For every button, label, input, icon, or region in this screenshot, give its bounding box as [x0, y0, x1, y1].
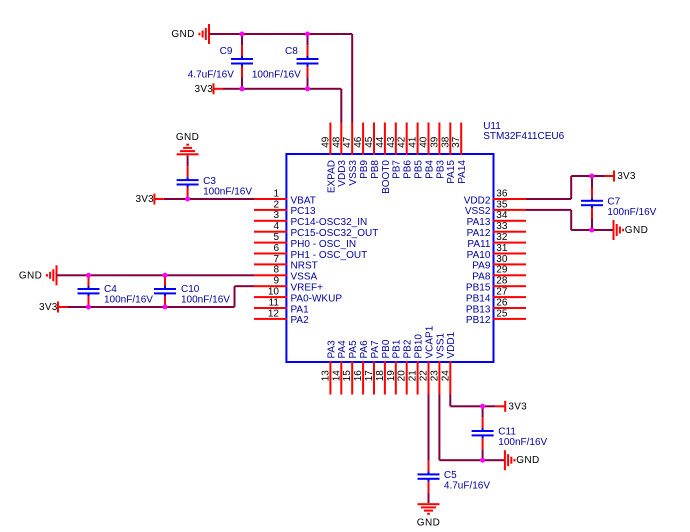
pin 29 PA8	[472, 265, 526, 283]
svg-text:PC13: PC13	[291, 206, 316, 217]
svg-text:34: 34	[496, 210, 508, 221]
pin 43 PB7	[386, 123, 403, 179]
pin 15 PA5	[342, 340, 359, 395]
svg-text:17: 17	[364, 370, 375, 382]
svg-text:STM32F411CEU6: STM32F411CEU6	[483, 131, 564, 142]
svg-text:100nF/16V: 100nF/16V	[181, 294, 230, 305]
svg-text:PA6: PA6	[359, 340, 370, 359]
svg-text:49: 49	[320, 136, 331, 148]
wire GND to C3	[187, 155, 189, 166]
pin 7 NRST	[254, 254, 318, 272]
svg-text:21: 21	[408, 370, 419, 382]
svg-text:PC15-OSC32_OUT: PC15-OSC32_OUT	[291, 228, 379, 239]
svg-text:PC14-OSC32_IN: PC14-OSC32_IN	[291, 217, 368, 228]
svg-text:31: 31	[496, 243, 508, 254]
svg-text:PB10: PB10	[414, 334, 425, 359]
svg-text:25: 25	[496, 308, 508, 319]
svg-text:39: 39	[429, 136, 440, 148]
svg-text:VREF+: VREF+	[291, 283, 324, 294]
svg-text:3V3: 3V3	[617, 171, 636, 182]
pin 9 VREF+	[254, 276, 323, 294]
svg-text:27: 27	[496, 287, 508, 298]
pin 6 PH1 - OSC_OUT	[254, 243, 367, 261]
svg-text:PB12: PB12	[466, 315, 491, 326]
pin 13 PA3	[320, 340, 337, 395]
svg-text:3V3: 3V3	[135, 194, 154, 205]
ground GND (right of C7)	[613, 220, 649, 240]
svg-text:11: 11	[269, 297, 280, 308]
pin 26 PB13	[466, 297, 526, 315]
svg-text:18: 18	[375, 370, 386, 382]
pin 5 PH0 - OSC_IN	[254, 232, 356, 250]
svg-text:100nF/16V: 100nF/16V	[607, 207, 656, 218]
junction C4 top	[86, 273, 91, 278]
pin 17 PA7	[364, 340, 381, 395]
svg-text:4: 4	[273, 221, 279, 232]
junction C11 top	[480, 404, 485, 409]
junction C8 bottom	[305, 86, 310, 91]
svg-text:3: 3	[273, 210, 279, 221]
pin 1 VBAT	[254, 188, 316, 206]
svg-text:GND: GND	[625, 225, 648, 236]
pin 25 PB12	[466, 308, 526, 326]
capacitor C10	[154, 275, 230, 307]
capacitor C9	[188, 34, 253, 89]
svg-text:PB15: PB15	[466, 283, 491, 294]
svg-text:EXPAD: EXPAD	[326, 160, 337, 193]
pin 12 PA2	[254, 308, 309, 326]
pin 33 PA12	[467, 221, 526, 239]
capacitor C7	[581, 176, 657, 230]
svg-text:PB13: PB13	[466, 304, 491, 315]
svg-text:GND: GND	[516, 455, 539, 466]
IC U11 STM32F411CEU6 body	[286, 154, 493, 362]
wire pin 23 VSS1 to GND	[438, 395, 505, 462]
svg-text:PA14: PA14	[457, 160, 468, 184]
svg-text:14: 14	[331, 370, 342, 382]
pin 36 VDD2	[464, 188, 526, 206]
capacitor C3	[177, 166, 253, 198]
svg-text:30: 30	[496, 254, 508, 265]
wire 3V3 to pin 9 VREF+	[68, 285, 255, 308]
svg-text:GND: GND	[171, 29, 194, 40]
svg-text:33: 33	[496, 221, 508, 232]
junction C9 bottom	[240, 86, 245, 91]
svg-text:36: 36	[496, 188, 508, 199]
svg-text:VSS3: VSS3	[348, 160, 359, 186]
svg-text:42: 42	[397, 136, 408, 148]
svg-text:19: 19	[386, 370, 397, 382]
svg-text:2: 2	[273, 199, 279, 210]
pin 34 PA13	[467, 210, 526, 228]
svg-text:VSS1: VSS1	[435, 332, 446, 358]
svg-text:47: 47	[342, 136, 353, 148]
svg-text:4.7uF/16V: 4.7uF/16V	[188, 70, 234, 81]
svg-text:VCAP1: VCAP1	[424, 325, 435, 358]
junction C7 top	[589, 174, 594, 179]
svg-text:35: 35	[496, 199, 508, 210]
svg-text:10: 10	[268, 287, 280, 298]
pin 18 PB0	[375, 339, 392, 394]
svg-text:23: 23	[429, 370, 440, 382]
pin 30 PA9	[472, 254, 526, 272]
designator U11	[483, 121, 501, 132]
svg-text:PA0-WKUP: PA0-WKUP	[291, 293, 343, 304]
ground GND (mid left)	[19, 265, 58, 285]
power port 3V3 (bottom)	[496, 401, 527, 413]
wire pin 35 VSS2 to GND	[526, 209, 614, 231]
capacitor C5	[418, 461, 491, 493]
svg-text:8: 8	[273, 265, 279, 276]
svg-text:3V3: 3V3	[195, 84, 214, 95]
svg-text:PB0: PB0	[381, 339, 392, 358]
svg-text:PB8: PB8	[370, 160, 381, 179]
svg-text:100nF/16V: 100nF/16V	[498, 437, 547, 448]
pin 28 PB15	[466, 276, 526, 294]
svg-text:PA2: PA2	[291, 315, 310, 326]
svg-text:41: 41	[408, 136, 419, 148]
power port 3V3 (right)	[605, 171, 636, 183]
svg-text:C7: C7	[607, 197, 620, 208]
svg-text:46: 46	[353, 136, 364, 148]
svg-text:45: 45	[364, 136, 375, 148]
wire C5 to GND	[428, 493, 430, 503]
ground GND (top left)	[171, 24, 210, 44]
svg-text:22: 22	[419, 370, 430, 382]
svg-text:3V3: 3V3	[39, 302, 58, 313]
svg-text:PB7: PB7	[392, 160, 403, 179]
pin 38 PA15	[440, 123, 457, 184]
pin 40 PB4	[419, 123, 436, 179]
pin 16 PA6	[353, 340, 370, 395]
pin 22 VCAP1	[419, 325, 436, 394]
svg-text:PA8: PA8	[472, 272, 491, 283]
wire pin 36 VDD2 to 3V3	[526, 175, 605, 200]
svg-text:PA3: PA3	[326, 340, 337, 359]
svg-text:PA1: PA1	[291, 304, 310, 315]
junction C9 top	[240, 32, 245, 37]
pin 46 PB9	[353, 123, 370, 179]
pin 47 VSS3	[342, 123, 359, 186]
capacitor C8	[252, 34, 319, 89]
svg-text:C3: C3	[203, 176, 216, 187]
svg-text:VDD3: VDD3	[337, 160, 348, 187]
pin 45 PB8	[364, 123, 381, 179]
svg-text:VDD1: VDD1	[446, 331, 457, 358]
junction C8 top	[305, 32, 310, 37]
value STM32F411CEU6	[483, 131, 564, 142]
svg-text:1: 1	[273, 188, 279, 199]
svg-text:PB1: PB1	[392, 339, 403, 358]
svg-text:100nF/16V: 100nF/16V	[104, 294, 153, 305]
svg-text:VSS2: VSS2	[465, 206, 491, 217]
power port 3V3 (left of C3)	[135, 194, 163, 206]
svg-text:48: 48	[331, 136, 342, 148]
svg-text:C8: C8	[285, 46, 298, 57]
pin 32 PA11	[467, 232, 526, 250]
wire pin 22 VCAP1 to C5	[428, 395, 430, 461]
svg-text:VDD2: VDD2	[464, 195, 491, 206]
pin 41 PB5	[408, 123, 425, 179]
ground GND (below C5)	[417, 503, 440, 529]
svg-text:PB14: PB14	[466, 293, 491, 304]
wire 3V3 rail to pin 48 VDD3	[223, 88, 342, 123]
capacitor C11	[472, 406, 548, 460]
pin 3 PC14-OSC32_IN	[254, 210, 367, 228]
svg-text:GND: GND	[417, 518, 440, 529]
svg-text:4.7uF/16V: 4.7uF/16V	[444, 481, 490, 492]
pin 27 PB14	[466, 287, 526, 305]
svg-text:13: 13	[320, 370, 331, 382]
wire 3V3 to pin 1 VBAT	[164, 198, 254, 200]
svg-text:PB5: PB5	[414, 160, 425, 179]
wire GND to pin 8 VSSA	[57, 274, 255, 276]
junction C3 bottom / pin1 wire	[185, 197, 190, 202]
pin 44 BOOT0	[375, 123, 392, 194]
svg-text:100nF/16V: 100nF/16V	[252, 70, 301, 81]
svg-text:PA5: PA5	[348, 340, 359, 359]
svg-text:GND: GND	[19, 270, 42, 281]
svg-text:PA9: PA9	[472, 261, 491, 272]
junction C10 bottom	[163, 305, 168, 310]
svg-text:20: 20	[397, 370, 408, 382]
svg-text:28: 28	[496, 276, 508, 287]
svg-text:5: 5	[273, 232, 279, 243]
pin 21 PB10	[408, 334, 425, 395]
svg-text:PA10: PA10	[467, 250, 491, 261]
svg-text:37: 37	[451, 136, 462, 148]
svg-text:PA15: PA15	[446, 160, 457, 184]
pin 42 PB6	[397, 123, 414, 179]
svg-text:40: 40	[419, 136, 430, 148]
svg-text:PA11: PA11	[467, 239, 490, 250]
svg-text:100nF/16V: 100nF/16V	[203, 186, 252, 197]
svg-text:32: 32	[496, 232, 508, 243]
svg-text:PB4: PB4	[424, 160, 435, 179]
pin 24 VDD1	[440, 331, 457, 394]
pin 23 VSS1	[429, 332, 446, 394]
svg-text:6: 6	[273, 243, 279, 254]
svg-text:24: 24	[440, 370, 451, 382]
svg-text:PA7: PA7	[370, 340, 381, 359]
svg-text:29: 29	[496, 265, 508, 276]
svg-text:PB9: PB9	[359, 160, 370, 179]
svg-text:15: 15	[342, 370, 353, 382]
junction C4 bottom	[86, 305, 91, 310]
svg-text:PB2: PB2	[403, 339, 414, 358]
pin 48 VDD3	[331, 123, 348, 187]
svg-text:3V3: 3V3	[508, 401, 527, 412]
svg-text:16: 16	[353, 370, 364, 382]
svg-text:NRST: NRST	[291, 261, 318, 272]
svg-text:C9: C9	[220, 46, 233, 57]
pin 20 PB2	[397, 339, 414, 394]
svg-text:BOOT0: BOOT0	[381, 160, 392, 194]
power port 3V3 (mid left)	[39, 302, 67, 314]
svg-text:GND: GND	[176, 132, 199, 143]
svg-text:7: 7	[273, 254, 279, 265]
pin 35 VSS2	[465, 199, 526, 217]
pin 8 VSSA	[254, 265, 318, 283]
svg-text:PB6: PB6	[403, 160, 414, 179]
svg-text:43: 43	[386, 136, 397, 148]
svg-text:38: 38	[440, 136, 451, 148]
pin 49 EXPAD	[320, 123, 337, 194]
svg-text:VBAT: VBAT	[291, 195, 316, 206]
capacitor C4	[78, 275, 154, 307]
pin 14 PA4	[331, 340, 348, 395]
pin 31 PA10	[467, 243, 526, 261]
power port 3V3 (top left)	[195, 83, 223, 95]
svg-text:26: 26	[496, 297, 508, 308]
pin 2 PC13	[254, 199, 316, 217]
pin 4 PC15-OSC32_OUT	[254, 221, 378, 239]
svg-text:12: 12	[268, 308, 280, 319]
svg-text:PA13: PA13	[467, 217, 491, 228]
svg-text:PH1 - OSC_OUT: PH1 - OSC_OUT	[291, 250, 368, 261]
svg-text:9: 9	[273, 276, 279, 287]
svg-text:VSSA: VSSA	[291, 272, 318, 283]
pin 37 PA14	[451, 123, 468, 184]
svg-text:PA12: PA12	[467, 228, 491, 239]
wire pin 24 VDD1 to 3V3	[449, 395, 495, 408]
junction C10 top	[163, 273, 168, 278]
pin 19 PB1	[386, 339, 403, 394]
pin 10 PA0-WKUP	[254, 287, 342, 305]
junction C7 bottom	[589, 228, 594, 233]
svg-text:C5: C5	[444, 470, 457, 481]
junction C11 bottom	[480, 458, 485, 463]
svg-text:PB3: PB3	[435, 160, 446, 179]
svg-text:PH0 - OSC_IN: PH0 - OSC_IN	[291, 239, 357, 250]
pin 39 PB3	[429, 123, 446, 179]
svg-text:C11: C11	[498, 427, 516, 438]
svg-text:44: 44	[375, 136, 386, 148]
ground GND (above C3)	[176, 132, 199, 156]
ground GND (right of C11)	[504, 450, 540, 470]
wire GND rail to pin 47 VSS3	[209, 33, 353, 123]
pin 11 PA1	[254, 297, 309, 315]
svg-text:PA4: PA4	[337, 340, 348, 359]
